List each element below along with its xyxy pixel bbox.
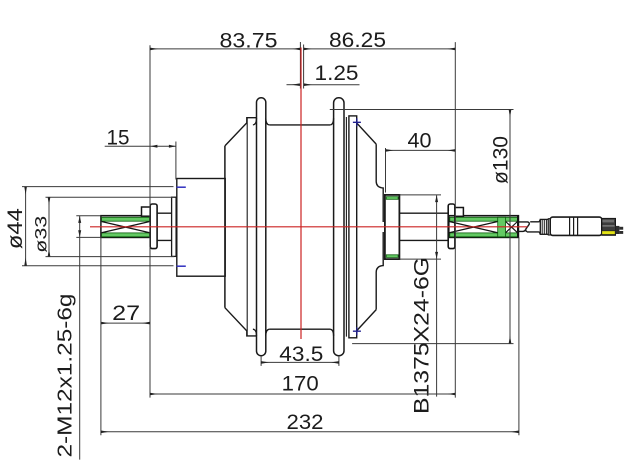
strain relief ribs bbox=[542, 219, 546, 234]
blue cross top bbox=[353, 118, 361, 126]
right thread green band top bbox=[450, 217, 518, 221]
left cone top bbox=[225, 118, 257, 146]
strain relief ribbed block bbox=[540, 219, 548, 234]
terminal stub bbox=[616, 226, 620, 234]
strain relief flare bbox=[539, 220, 540, 235]
blue tick dia44 top bbox=[177, 186, 186, 188]
right axle sleeve bbox=[399, 213, 448, 240]
right plate edge bottom with fillet bbox=[376, 232, 383, 310]
cable bbox=[527, 222, 539, 232]
wire bundle bbox=[602, 218, 616, 235]
left axle sleeve bbox=[157, 213, 172, 240]
right cover ring bbox=[349, 116, 357, 338]
left thread green band bottom bbox=[102, 233, 150, 237]
svg-text:1.25: 1.25 bbox=[315, 62, 359, 85]
svg-text:ø130: ø130 bbox=[489, 136, 512, 184]
connector collar bbox=[548, 219, 550, 235]
left thread cross bbox=[102, 222, 150, 233]
svg-text:83.75: 83.75 bbox=[220, 30, 278, 53]
terminal fork tine upper bbox=[619, 227, 623, 230]
svg-text:43.5: 43.5 bbox=[279, 343, 323, 366]
right ring joint line bbox=[345, 117, 347, 337]
blue cross bottom bbox=[353, 327, 361, 335]
terminal fork tine lower bbox=[619, 231, 623, 234]
svg-text:ø44: ø44 bbox=[4, 208, 27, 249]
drum bottom surface bbox=[269, 328, 330, 330]
left cone bottom bbox=[225, 308, 257, 336]
right cone bottom bbox=[357, 310, 376, 331]
svg-text:B1375X24-6G: B1375X24-6G bbox=[411, 257, 434, 414]
dimension 86.25 bbox=[304, 42, 456, 398]
wire bundle top highlight bbox=[602, 220, 614, 223]
left locknut bbox=[150, 204, 157, 249]
connector body bbox=[550, 217, 602, 235]
freewheel threaded ring bbox=[385, 195, 400, 259]
svg-text:40: 40 bbox=[408, 130, 432, 153]
right tab washer bbox=[455, 208, 464, 217]
connector body lines bbox=[570, 217, 578, 235]
left spoke flange bbox=[257, 98, 266, 356]
yellow wire bbox=[602, 231, 615, 235]
right thread green band bottom bbox=[450, 233, 518, 237]
dimension 43.5 bbox=[261, 357, 339, 366]
svg-text:170: 170 bbox=[282, 373, 319, 396]
right axle end face bbox=[517, 216, 519, 238]
drum top surface bbox=[269, 124, 330, 126]
dimension 15 bbox=[105, 142, 176, 180]
dimension 2-M12x1.25-6g bbox=[76, 216, 101, 460]
right spoke flange bbox=[334, 98, 344, 356]
right flange base fillets bbox=[330, 118, 334, 336]
right axle thread body bbox=[449, 216, 519, 238]
dimension 232 bbox=[101, 216, 519, 436]
left spacer washer bbox=[172, 197, 177, 256]
blue tick dia44 bottom bbox=[177, 265, 186, 267]
svg-text:15: 15 bbox=[107, 126, 130, 149]
wire bundle mid highlight bbox=[602, 225, 614, 227]
right locknut bbox=[448, 204, 455, 249]
svg-text:27: 27 bbox=[112, 302, 140, 325]
left flange base fillets bbox=[253, 118, 270, 336]
left cover cylinder bbox=[177, 179, 225, 277]
left tab washer bbox=[142, 207, 151, 216]
dimension 40 bbox=[386, 148, 456, 193]
dimension 1.25 bbox=[287, 84, 360, 86]
dimension dia33 bbox=[46, 197, 175, 256]
dimension B1375X24-6G bbox=[399, 195, 441, 397]
red horizontal centerline bbox=[90, 226, 528, 228]
left axle thread body bbox=[101, 216, 150, 238]
red vertical centerline bbox=[300, 48, 302, 340]
left side plate edge bbox=[224, 146, 226, 308]
dimension 83.75 bbox=[150, 42, 300, 398]
svg-text:86.25: 86.25 bbox=[329, 29, 386, 52]
svg-text:2-M12x1.25-6g: 2-M12x1.25-6g bbox=[55, 294, 77, 458]
right thread cross small bbox=[506, 222, 518, 233]
cable kink bbox=[518, 222, 529, 232]
right thread green stripe bbox=[498, 217, 506, 237]
right thread cross large bbox=[449, 222, 498, 233]
dimension 170 bbox=[150, 393, 455, 395]
dimension dia44 bbox=[22, 187, 174, 266]
left cover joint line bbox=[246, 118, 248, 336]
right plate edge top with fillet bbox=[376, 144, 383, 222]
dimension dia130 bbox=[330, 110, 514, 344]
right cone top bbox=[357, 123, 376, 144]
freewheel ring green thread band bottom bbox=[386, 255, 398, 258]
dimension 27 bbox=[101, 322, 150, 324]
freewheel ring green thread band top bbox=[386, 197, 398, 200]
svg-text:232: 232 bbox=[287, 411, 324, 434]
svg-text:ø33: ø33 bbox=[31, 216, 50, 253]
left thread green band top bbox=[102, 217, 150, 221]
